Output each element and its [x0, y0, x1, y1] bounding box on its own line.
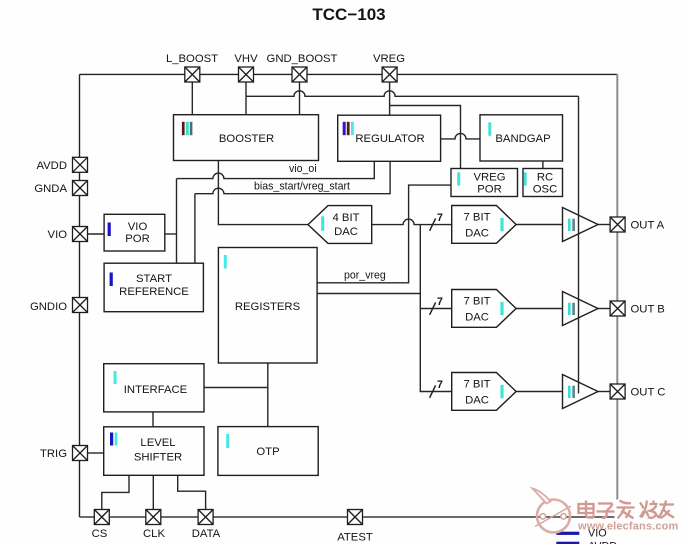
svg-text:GND_BOOST: GND_BOOST [267, 53, 338, 65]
svg-text:www.elecfans.com: www.elecfans.com [577, 521, 678, 533]
svg-text:REFERENCE: REFERENCE [119, 286, 189, 298]
svg-text:REGISTERS: REGISTERS [235, 301, 301, 313]
svg-text:4 BIT: 4 BIT [333, 212, 360, 224]
svg-text:CS: CS [92, 528, 108, 540]
svg-text:DATA: DATA [192, 528, 221, 540]
svg-text:por_vreg: por_vreg [344, 269, 386, 281]
svg-text:DAC: DAC [334, 226, 358, 238]
svg-text:REGULATOR: REGULATOR [355, 133, 424, 145]
svg-text:BANDGAP: BANDGAP [495, 133, 550, 145]
svg-text:RC: RC [537, 172, 553, 184]
svg-text:VREG: VREG [473, 172, 505, 184]
svg-text:GNDIO: GNDIO [30, 301, 67, 313]
svg-text:7 BIT: 7 BIT [464, 296, 491, 308]
svg-text:7 BIT: 7 BIT [464, 212, 491, 224]
svg-text:POR: POR [477, 184, 501, 196]
svg-text:7: 7 [437, 212, 443, 224]
svg-text:7: 7 [437, 296, 443, 308]
svg-text:BOOSTER: BOOSTER [219, 133, 274, 145]
svg-text:CLK: CLK [143, 528, 165, 540]
svg-text:OUT C: OUT C [631, 387, 666, 399]
svg-text:DAC: DAC [465, 311, 489, 323]
svg-text:DAC: DAC [465, 227, 489, 239]
svg-text:VIO: VIO [128, 221, 148, 233]
svg-text:OUT B: OUT B [631, 304, 665, 316]
svg-text:SHIFTER: SHIFTER [134, 452, 182, 464]
svg-text:7: 7 [437, 379, 443, 391]
svg-text:POR: POR [125, 233, 149, 245]
svg-text:vio_oi: vio_oi [289, 163, 317, 175]
svg-text:ATEST: ATEST [337, 532, 373, 544]
svg-text:GNDA: GNDA [34, 183, 67, 195]
svg-text:bias_start/vreg_start: bias_start/vreg_start [254, 181, 350, 193]
svg-text:VREG: VREG [373, 53, 405, 65]
svg-text:TRIG: TRIG [40, 448, 67, 460]
svg-text:DAC: DAC [465, 394, 489, 406]
svg-text:OTP: OTP [256, 446, 279, 458]
svg-text:L_BOOST: L_BOOST [166, 53, 218, 65]
svg-text:START: START [136, 273, 172, 285]
svg-text:VHV: VHV [234, 53, 258, 65]
svg-text:LEVEL: LEVEL [140, 437, 175, 449]
svg-text:TCC−103: TCC−103 [312, 5, 385, 24]
svg-text:AVDD: AVDD [588, 540, 617, 544]
svg-text:7 BIT: 7 BIT [464, 379, 491, 391]
svg-text:AVDD: AVDD [36, 160, 67, 172]
svg-text:OUT A: OUT A [631, 220, 665, 232]
svg-text:VIO: VIO [48, 229, 68, 241]
svg-text:OSC: OSC [533, 184, 557, 196]
svg-text:INTERFACE: INTERFACE [124, 384, 188, 396]
